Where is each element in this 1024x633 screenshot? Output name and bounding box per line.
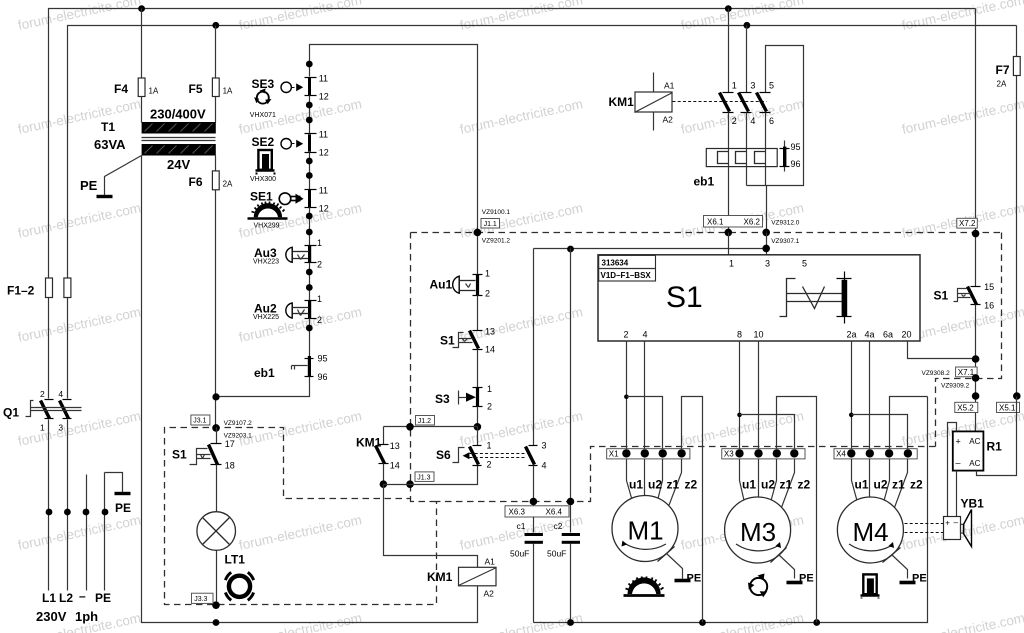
svg-text:13: 13 [390,441,400,451]
node dot line B / F5 tap [212,22,219,29]
wire R1 plus to YB1 [948,423,957,517]
svg-text:LT1: LT1 [225,553,246,567]
svg-text:3: 3 [58,423,63,433]
svg-text:A1: A1 [664,81,675,91]
svg-text:J1.1: J1.1 [484,221,497,228]
module S1 main box 313634 V1D-F1-BSX [598,255,920,341]
svg-text:eb1: eb1 [694,175,715,189]
svg-text:230V: 230V [36,609,67,624]
node dot pin3 junction [762,233,770,255]
svg-text:A2: A2 [484,589,495,599]
svg-text:R1: R1 [987,440,1003,454]
connector X5.1 [997,392,1021,412]
svg-text:J3.1: J3.1 [193,418,206,425]
svg-text:AC: AC [969,459,980,468]
svg-text:10: 10 [754,330,764,340]
switch S1 contact 13/14 [440,326,495,354]
svg-text:1: 1 [40,423,45,433]
capacitor c2 50uF [547,517,580,623]
wire R1 AC return to X5.1 [977,397,1017,476]
svg-text:2A: 2A [997,80,1007,89]
svg-text:24V: 24V [167,157,190,172]
mechanical link M4 to YB1 [905,524,944,533]
svg-text:95: 95 [791,142,801,152]
contactor coil KM1 (control circuit) [427,557,497,599]
svg-text:1ph: 1ph [75,609,98,624]
svg-text:J1.2: J1.2 [418,418,431,425]
connector X6.1 X6.2 [704,216,800,246]
wire M4 z1 return to rail [890,397,928,454]
svg-text:z1: z1 [780,478,793,492]
dashed machine boundary (motor terminal row) [165,233,936,605]
svg-text:V1D–F1–BSX: V1D–F1–BSX [601,271,652,280]
svg-text:S1: S1 [666,281,703,314]
svg-text:VZ9307.1: VZ9307.1 [771,238,800,245]
svg-text:u2: u2 [874,478,888,492]
svg-text:VHX299: VHX299 [254,223,280,230]
svg-text:VZ9201.2: VZ9201.2 [482,238,511,245]
ground symbol PE input [115,494,132,516]
svg-text:SE3: SE3 [252,77,275,91]
svg-text:1: 1 [487,441,492,451]
svg-text:50uF: 50uF [547,549,566,559]
wire S1 pin 10 to M3 u2 [758,341,760,454]
svg-text:1: 1 [317,238,322,248]
svg-text:M3: M3 [740,517,776,547]
wire capacitor feed line to pin 3 [534,246,767,253]
svg-text:6a: 6a [883,330,893,340]
wire SE column SE2-SE1 [306,153,313,190]
svg-text:u1: u1 [855,478,869,492]
thermal overload eb1 heater box [694,149,778,233]
svg-text:VZ9309.2: VZ9309.2 [941,383,970,390]
svg-text:2: 2 [487,459,492,469]
icon LT1 indicator rings [225,572,253,600]
fuse F1 [46,278,53,298]
node dot SE3 top [306,61,313,68]
connector J1.1 [474,209,511,245]
wire S1 to S3 [477,350,479,388]
svg-text:3: 3 [765,259,770,269]
contactor KM1 pole 3-4 [739,26,756,167]
svg-text:2: 2 [487,402,492,412]
wire S1 pin 4a to M4 u2 [869,341,871,454]
transformer T1 [94,107,216,173]
svg-text:u1: u1 [742,478,756,492]
icon SE1 saw blade VHX299 [248,202,288,230]
svg-text:Q1: Q1 [3,406,19,420]
svg-text:T1: T1 [101,120,115,134]
svg-text:VZ9312.0: VZ9312.0 [771,220,800,227]
svg-text:–: – [956,458,961,468]
labels L1 L2 - PE 230V 1ph [36,589,111,624]
svg-text:VHX223: VHX223 [253,258,279,265]
svg-text:VHX300: VHX300 [250,176,276,183]
svg-text:11: 11 [319,186,328,196]
terminal strip X4 [834,449,917,459]
svg-text:z2: z2 [798,478,811,492]
svg-text:1A: 1A [149,87,159,96]
icon SE2 door VHX300 [250,150,276,183]
wire SE column SE1-Au3 [306,208,313,246]
lamp LT1 [197,465,245,606]
svg-text:S3: S3 [435,392,450,406]
mechanical link S6 poles [470,454,526,458]
wire branch M4 z2 [852,415,908,454]
pushbutton Au3 [253,238,322,269]
svg-text:1A: 1A [223,87,233,96]
svg-text:3: 3 [542,441,547,451]
svg-text:S1: S1 [934,289,949,303]
svg-text:–: – [79,589,86,603]
svg-text:KM1: KM1 [427,570,453,584]
wire S1 pin 8 to M3 u1 [737,341,742,454]
connector J1.3 [380,466,478,489]
svg-text:1: 1 [487,384,492,394]
wire motor-circuit bottom rail [534,397,928,626]
connector X6.3 X6.4 [505,498,574,517]
wire S1 pin 2 to M1 u1 [624,341,629,454]
wire SE column Au3-Au2 [306,263,313,301]
switch SE1 (NC contact with roller) [250,186,329,214]
svg-text:M4: M4 [853,517,889,547]
dashed machine boundary (top edge y=232) [411,232,1002,234]
svg-text:1: 1 [485,269,490,279]
svg-text:X3: X3 [724,450,734,459]
switch S3 (NC pushbutton) [435,384,492,412]
pushbutton Au1 [430,269,491,299]
svg-text:VZ9100.1: VZ9100.1 [482,209,511,216]
svg-text:KM1: KM1 [609,95,635,109]
svg-text:X1: X1 [609,450,619,459]
contact eb1 95/96 (power side) [780,141,801,172]
mechanical link KM1 coil to poles [673,101,767,103]
svg-text:S1: S1 [440,334,455,348]
svg-text:4a: 4a [865,330,875,340]
icon M4 door [861,574,880,598]
svg-text:11: 11 [319,130,328,140]
contactor KM1 pole 5-6 with loop [747,46,804,186]
connector X5.2 [955,392,980,412]
icon M1 saw blade [624,577,665,596]
svg-text:VHX071: VHX071 [250,112,276,119]
terminal strip X1 [607,449,690,459]
switch Q1 pole 1 [40,389,54,591]
terminal strip X3 [722,449,805,459]
svg-text:230/400V: 230/400V [150,107,206,122]
node dot 24V junction [212,393,219,400]
wire KM1 coil feed [384,485,478,568]
svg-text:PE: PE [80,178,98,193]
svg-text:X6.1: X6.1 [707,217,724,226]
switch S1 contact 15/16 [934,282,995,311]
svg-text:+: + [956,437,961,447]
fuse F2 [7,278,71,298]
wire M3 z1 return to rail [777,397,817,623]
svg-text:X5.2: X5.2 [957,403,974,412]
svg-text:F1–2: F1–2 [7,284,35,298]
svg-text:SE2: SE2 [252,135,275,149]
svg-text:4: 4 [542,460,547,470]
svg-text:S6: S6 [436,448,451,462]
wire S1 pin 2a to M4 u1 [849,341,854,454]
wire SE column SE3-SE2 [306,96,313,134]
fuse F7 [996,26,1021,397]
switch S6 pole 2 [526,249,547,517]
switch SE3 (NC door contact) [252,73,329,101]
svg-text:A1: A1 [485,557,496,567]
wire 0V rail (left secondary) down and across bottom [142,156,478,623]
wire Au2 to eb1 aux [306,319,313,351]
svg-text:PE: PE [912,573,927,585]
svg-text:12: 12 [319,148,329,158]
wire top supply line B (L2) [68,26,1017,399]
svg-text:c2: c2 [554,521,563,531]
switch S6 pole 1 [436,427,492,470]
svg-text:X7.1: X7.1 [958,368,975,377]
wire S1 16 down to X7.1 [972,305,980,432]
svg-text:17: 17 [225,439,235,449]
svg-text:z2: z2 [910,478,923,492]
svg-text:20: 20 [902,330,912,340]
pushbutton Au2 [253,294,322,325]
fuse F4 [114,9,159,123]
svg-text:96: 96 [791,159,801,169]
connector X7.2 [957,9,980,287]
svg-text:16: 16 [984,301,994,311]
wire branch M3 z2 [740,415,795,454]
svg-text:X6.3: X6.3 [509,507,526,516]
svg-text:2A: 2A [223,180,233,189]
node dot line A / contactor pole1 tap [725,5,732,12]
node dot line B / contactor pole3 tap [744,22,751,29]
svg-text:50uF: 50uF [510,549,529,559]
svg-text:z1: z1 [667,478,680,492]
icon SE3 impeller VHX071 [250,88,276,119]
contact KM1 auxiliary 13/14 [356,427,400,485]
connector J1.2 [384,416,478,431]
svg-text:313634: 313634 [602,258,629,267]
svg-text:14: 14 [390,461,400,471]
dashed machine boundary (right edge) [936,233,1002,447]
svg-text:VZ9107.2: VZ9107.2 [224,420,253,427]
svg-text:2: 2 [732,116,737,126]
svg-text:18: 18 [225,460,235,470]
svg-text:L1: L1 [42,591,56,605]
svg-text:4: 4 [58,389,63,399]
svg-text:SE1: SE1 [250,190,273,204]
svg-text:3: 3 [750,81,755,91]
svg-text:KM1: KM1 [356,436,382,450]
node dot line A / F4 tap [138,5,145,12]
svg-text:u1: u1 [629,478,643,492]
wire S1 pin 20 to X7.1 [908,341,976,359]
svg-text:2: 2 [317,260,322,270]
svg-text:4: 4 [750,116,755,126]
ground PE motor M1 [675,573,702,585]
motor M3 [725,459,811,579]
dashed link KM1 box corner [411,499,437,502]
connector J3.1 [191,415,252,440]
svg-text:X6.4: X6.4 [546,507,563,516]
node dot LT1 return on 0V rail [213,619,220,626]
svg-text:S1: S1 [172,448,187,462]
wire top supply line A (L1) [49,9,976,399]
svg-text:X5.1: X5.1 [999,403,1016,412]
motor M4 [837,459,923,579]
svg-text:YB1: YB1 [961,497,985,511]
svg-text:96: 96 [318,372,328,382]
svg-text:z1: z1 [892,478,905,492]
svg-text:AC: AC [969,437,980,446]
switch Q1 pole 2 [58,389,71,591]
svg-text:14: 14 [485,345,495,355]
wire PE input with ground jog [105,473,123,591]
contact eb1 auxiliary 95/96 [254,351,328,385]
capacitor c1 50uF [510,517,543,623]
wire S3 to junction [474,407,482,431]
wire S1 pin 4 to M1 u2 [644,341,646,454]
svg-text:J3.3: J3.3 [194,596,207,603]
wire eb1 aux to 24V junction [217,385,310,397]
fuse F6 [189,156,234,428]
wire X6.1 to S1 box pin 1 [728,233,730,255]
contactor KM1 pole 1-2 [720,9,737,167]
svg-text:95: 95 [318,354,328,364]
svg-text:PE: PE [95,591,111,605]
svg-text:+: + [945,519,950,528]
svg-text:A2: A2 [663,115,674,125]
fuse F5 [189,26,234,123]
connector J3.3 [192,593,220,609]
svg-text:VZ9308.2: VZ9308.2 [922,370,951,377]
svg-text:u2: u2 [648,478,662,492]
svg-text:1: 1 [732,81,737,91]
svg-text:PE: PE [687,573,702,585]
node dots incoming terminals [46,509,109,516]
svg-text:F5: F5 [189,82,203,96]
svg-text:VHX225: VHX225 [253,314,279,321]
svg-text:PE: PE [115,501,131,515]
svg-text:15: 15 [984,282,994,292]
ground PE motor M3 [787,573,814,585]
svg-text:X4: X4 [836,450,846,459]
buzzer YB1 [944,497,985,547]
wire SE chain top link [310,45,478,275]
svg-text:X6.2: X6.2 [744,217,761,226]
svg-text:12: 12 [319,91,329,101]
svg-text:c1: c1 [517,521,526,531]
switch S1 contact 17/18 [172,428,235,471]
svg-text:J1.3: J1.3 [417,474,430,481]
wire branch M1 z1 [627,397,663,454]
svg-text:5: 5 [802,259,807,269]
wire neutral stub [86,475,88,591]
svg-text:2: 2 [485,289,490,299]
svg-text:Au1: Au1 [430,278,453,292]
svg-text:F7: F7 [996,63,1010,77]
svg-text:4: 4 [643,330,648,340]
switch Q1 handle linkage [3,401,82,420]
svg-text:eb1: eb1 [254,366,275,380]
svg-text:1: 1 [729,259,734,269]
wire R1 minus to YB1 [956,471,958,517]
svg-text:–: – [954,518,959,527]
rectifier R1 [953,431,1002,470]
svg-text:2a: 2a [847,330,857,340]
wire c2 column [570,249,572,517]
ground PE motor M4 [900,573,927,585]
pressure switch symbol inside S1 [780,272,852,324]
motor M1 [612,459,698,579]
svg-text:11: 11 [319,73,328,83]
svg-text:L2: L2 [59,591,73,605]
svg-text:5: 5 [769,81,774,91]
contactor coil KM1 (power side mirror) [609,73,675,131]
svg-text:2: 2 [317,315,322,325]
connector X7.1 [922,367,980,390]
svg-text:1: 1 [317,294,322,304]
svg-text:F6: F6 [189,175,203,189]
svg-text:X7.2: X7.2 [959,219,976,228]
svg-text:z2: z2 [685,478,698,492]
svg-text:2: 2 [40,389,45,399]
svg-text:12: 12 [319,203,329,213]
svg-text:63VA: 63VA [94,137,126,152]
svg-text:6: 6 [769,116,774,126]
wire Au1 to S1 [477,296,479,331]
transformer PE tap and ground [80,156,142,197]
svg-text:8: 8 [737,330,742,340]
svg-text:M1: M1 [628,516,664,546]
svg-text:2: 2 [624,330,629,340]
wire M1 z2 return to rail [682,397,703,623]
icon M3 fan [748,574,767,598]
svg-text:u2: u2 [761,478,775,492]
svg-text:F4: F4 [114,82,128,96]
svg-text:PE: PE [799,573,814,585]
switch SE2 (NC door contact) [252,130,329,158]
svg-text:13: 13 [485,326,495,336]
